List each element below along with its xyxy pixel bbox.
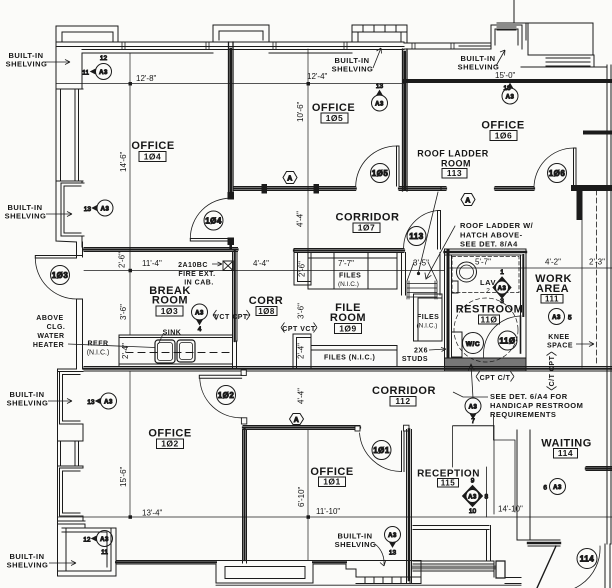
reception counter L: [413, 526, 491, 561]
annotation BUILT-IN SHELVING top-right: [458, 50, 505, 72]
annotation LAV: [480, 278, 496, 295]
wall west of break room w/ door 103 opening: [77, 242, 83, 369]
wall corridor112 north: [84, 367, 612, 372]
svg-text:1Ø8: 1Ø8: [258, 307, 275, 316]
svg-text:11Ø: 11Ø: [499, 337, 515, 346]
svg-text:SHELVING: SHELVING: [332, 65, 374, 74]
A3 balloon bottom shelving (triangle bottom): [385, 527, 401, 557]
door 104 arc: [190, 198, 230, 238]
svg-text:2: 2: [486, 288, 490, 295]
A3 balloon office105 (triangle top): [372, 83, 388, 111]
wall right exterior: [594, 65, 611, 544]
door 113 leaf: [438, 211, 441, 250]
dimension line middle: [84, 268, 612, 271]
door circle 104: [204, 211, 223, 230]
svg-text:A: A: [287, 176, 293, 183]
svg-text:4'-4": 4'-4": [296, 211, 305, 227]
room label WORK AREA 111: [535, 273, 572, 304]
wall restroom west (2x6 studs): [445, 249, 452, 366]
svg-text:4'-4": 4'-4": [253, 259, 269, 268]
svg-text:1Ø3: 1Ø3: [52, 271, 69, 280]
svg-text:A3: A3: [195, 311, 204, 317]
svg-text:A3: A3: [469, 405, 478, 411]
svg-text:7'-7": 7'-7": [338, 259, 354, 268]
svg-text:REQUIREMENTS: REQUIREMENTS: [490, 410, 556, 419]
wall stub east of office106: [585, 131, 612, 135]
A3 balloon break room (triangle bottom): [192, 304, 208, 333]
svg-text:2'-4": 2'-4": [121, 343, 130, 359]
wall left exterior outer: [56, 26, 77, 242]
wall dark segment SE of office106: [574, 185, 612, 191]
svg-text:1Ø5: 1Ø5: [326, 113, 344, 123]
svg-text:WATER: WATER: [37, 333, 64, 340]
svg-text:4'-4": 4'-4": [297, 388, 306, 404]
annotation BUILT-IN SHELVING left lower: [7, 390, 72, 408]
svg-text:HATCH ABOVE-: HATCH ABOVE-: [460, 231, 523, 240]
svg-text:CPT C/T: CPT C/T: [480, 375, 511, 382]
room label ROOF LADDER ROOM 113: [417, 149, 489, 179]
svg-text:A: A: [465, 198, 471, 205]
door 104 jamb blocks: [228, 193, 234, 200]
roof ladder rails and rungs: [407, 262, 437, 299]
svg-text:6: 6: [543, 485, 547, 492]
restroom south wall hatched: [445, 358, 527, 371]
door 114 wall: [528, 540, 560, 546]
shelving bump B4: [491, 25, 522, 49]
WC circle: [463, 333, 484, 354]
svg-text:ROOM: ROOM: [152, 295, 188, 307]
flooring CPT C/T: [476, 372, 514, 383]
svg-text:12: 12: [100, 55, 108, 62]
dimension line top: [56, 83, 404, 85]
room label OFFICE 105: [312, 102, 355, 123]
shelving recess left2: [60, 372, 84, 442]
svg-text:A3: A3: [388, 533, 397, 539]
wall reception|waiting divider: [517, 430, 530, 540]
A3 balloon office102 left (triangle left): [87, 393, 116, 409]
svg-text:A3: A3: [552, 315, 561, 321]
svg-text:1Ø9: 1Ø9: [339, 324, 357, 334]
window ticks top wall: [122, 42, 454, 49]
svg-text:4'-2": 4'-2": [545, 258, 561, 267]
room label RESTROOM 110: [456, 304, 524, 325]
svg-text:AREA: AREA: [536, 283, 569, 295]
svg-text:13'-4": 13'-4": [142, 509, 163, 518]
svg-text:2'-4": 2'-4": [297, 343, 306, 359]
svg-text:1Ø1: 1Ø1: [323, 477, 341, 487]
svg-text:5'-7": 5'-7": [475, 258, 491, 267]
built-in shelving L bottom-left: [58, 528, 117, 576]
door circle 106: [548, 164, 567, 183]
room label OFFICE 104: [131, 140, 174, 162]
WC tank: [452, 332, 463, 357]
svg-text:SHELVING: SHELVING: [7, 399, 49, 408]
work area west boundary thin: [581, 217, 583, 367]
room label CORRIDOR 107: [336, 212, 400, 233]
annotation BUILT-IN SHELVING bottom-center: [335, 532, 386, 567]
svg-text:OFFICE: OFFICE: [131, 140, 174, 152]
room label CORR 108: [249, 295, 283, 316]
svg-text:ROOF LADDER: ROOF LADDER: [417, 149, 489, 159]
WC leader arrow: [469, 364, 475, 398]
svg-text:10'-6": 10'-6": [296, 101, 305, 122]
annotation BUILT-IN SHELVING top-center: [332, 48, 382, 74]
door 102 leaf: [199, 375, 241, 378]
svg-text:11Ø: 11Ø: [480, 315, 497, 325]
svg-text:12'-8": 12'-8": [136, 74, 157, 83]
door 101 arc: [360, 433, 402, 472]
wall corridor107 north segment B: [399, 187, 446, 191]
bottom bump A: [216, 561, 313, 584]
door 114 leaf: [537, 546, 556, 588]
wall divider office102|101: [243, 430, 247, 564]
door 105 arc: [356, 146, 397, 187]
svg-text:11'-10": 11'-10": [316, 507, 340, 516]
shelving recess left3: [60, 466, 84, 521]
leader polyline to door114 area: [494, 415, 516, 512]
door 110 arc: [484, 316, 521, 360]
restroom vanity dashed: [452, 257, 519, 293]
A3 balloon waiting: [543, 479, 565, 495]
svg-text:SPACE: SPACE: [547, 343, 573, 350]
reception desk lines: [453, 426, 495, 517]
svg-text:SEE DET. 8/A4: SEE DET. 8/A4: [460, 240, 518, 249]
svg-text:1Ø7: 1Ø7: [358, 223, 376, 233]
svg-text:SHELVING: SHELVING: [7, 561, 49, 570]
corr108 east cabinet bottom: [293, 334, 311, 368]
wall waiting north-east stub: [586, 467, 612, 471]
dim extension line x130: [129, 53, 131, 516]
door circle 105: [371, 164, 390, 183]
door 110 leaf: [520, 316, 522, 353]
svg-text:FIRE EXT.: FIRE EXT.: [178, 271, 215, 278]
room label OFFICE 102: [148, 428, 191, 449]
A3 balloon restroom diamond: [493, 269, 511, 305]
svg-text:SHELVING: SHELVING: [335, 540, 377, 549]
room label WAITING 114: [541, 438, 592, 459]
svg-text:12: 12: [83, 537, 91, 544]
svg-text:14'-10": 14'-10": [498, 505, 523, 514]
svg-text:CPT VCT: CPT VCT: [282, 326, 316, 333]
bottom bump B: [346, 561, 421, 584]
svg-text:8: 8: [485, 494, 489, 501]
wall north of office106/work area (thick): [404, 79, 612, 83]
annotation REFR NIC: [87, 341, 110, 357]
files text right cabinet: [417, 314, 440, 330]
file room bottom cabinet: [311, 346, 397, 367]
wall file room north (corr107 south east part): [294, 249, 404, 253]
svg-text:1Ø4: 1Ø4: [205, 217, 222, 226]
A3 balloon work area: [549, 309, 573, 325]
svg-text:A3: A3: [506, 95, 515, 101]
wall corr108 west / fire cabinet wall: [233, 252, 238, 342]
dim extension line x308: [307, 49, 309, 560]
annotation ROOF LADDER W HATCH: [460, 221, 534, 249]
svg-text:6'-10": 6'-10": [297, 486, 306, 507]
svg-text:A3: A3: [101, 207, 110, 213]
annotation KNEE SPACE: [547, 334, 594, 350]
door 106 arc: [534, 148, 574, 189]
wall restroom east: [521, 249, 527, 362]
svg-text:CORR: CORR: [249, 295, 283, 307]
bottom column: [496, 561, 505, 578]
svg-text:13: 13: [389, 550, 397, 557]
door circle 114: [577, 549, 597, 569]
svg-text:11: 11: [82, 70, 89, 77]
svg-text:FILES: FILES: [417, 314, 439, 321]
svg-text:13: 13: [87, 399, 95, 406]
svg-text:114: 114: [558, 448, 573, 458]
door 102 arc: [200, 379, 242, 418]
door 106 leaf: [574, 148, 577, 188]
annotation 2X6 STUDS: [402, 348, 446, 364]
wall corridor107 north segment A: [234, 187, 356, 191]
svg-text:A3: A3: [100, 537, 109, 543]
restroom turning circle dashed: [454, 298, 518, 362]
annotation BUILT-IN SHELVING top-left: [6, 51, 70, 69]
shelving bump B1 top-left: [56, 26, 118, 42]
svg-text:11'-4": 11'-4": [142, 259, 162, 268]
wall reception west: [407, 430, 412, 584]
knee space dashed line: [596, 190, 598, 363]
svg-text:A3: A3: [498, 286, 507, 292]
room label OFFICE 101: [310, 466, 353, 487]
door circle 113: [407, 227, 426, 246]
corr108 east cabinet top: [294, 249, 311, 286]
svg-text:1Ø1: 1Ø1: [373, 446, 390, 455]
svg-text:IN CAB.: IN CAB.: [184, 280, 214, 287]
hexagon A corridor107: [283, 172, 297, 184]
room label FILE ROOM 109: [330, 302, 366, 334]
wall restroom north: [445, 249, 527, 255]
svg-text:A3: A3: [375, 102, 384, 108]
svg-text:15'-0": 15'-0": [495, 71, 516, 80]
svg-text:2'-6": 2'-6": [118, 252, 127, 268]
dimension line bottom: [58, 516, 612, 518]
bottom hatched band right of reception wall: [413, 561, 494, 577]
svg-text:SHELVING: SHELVING: [458, 63, 500, 72]
svg-text:(N.I.C.): (N.I.C.): [87, 350, 110, 357]
door 113 arc: [404, 211, 438, 248]
svg-text:3'-6": 3'-6": [297, 303, 306, 319]
svg-text:VCT CPT: VCT CPT: [214, 314, 248, 321]
svg-text:11: 11: [101, 549, 108, 556]
svg-text:2'-6": 2'-6": [298, 261, 307, 277]
svg-text:KNEE: KNEE: [548, 334, 569, 341]
wall bottom right: [605, 544, 610, 588]
flooring VCT CPT: [213, 310, 250, 321]
annotation SINK: [159, 330, 182, 345]
annotation BUILT-IN SHELVING left mid: [5, 203, 72, 221]
svg-text:113: 113: [409, 232, 423, 241]
svg-text:14'-6": 14'-6": [119, 151, 128, 172]
svg-text:13: 13: [376, 83, 384, 90]
wall top exterior band: [56, 42, 404, 50]
shelving recess left1: [61, 183, 84, 247]
RLR leader diagonals: [419, 192, 456, 279]
door101 jamb blocks: [355, 426, 360, 431]
wall divider office104|105: [229, 42, 234, 193]
dim intersection ticks: [129, 82, 311, 519]
wall corridor112 south: [243, 426, 494, 430]
door 101 leaf: [402, 431, 405, 472]
shelving bump B3: [352, 25, 407, 42]
A3 balloon below restroom (triangle bottom): [465, 398, 481, 425]
wall top inner face: [82, 52, 352, 54]
svg-text:A3: A3: [468, 495, 477, 501]
wall bottom-left corner: [58, 521, 86, 528]
break room counter: [119, 335, 237, 368]
shelving bump B2: [213, 25, 269, 42]
bottom outer line under bumps: [216, 584, 521, 586]
svg-text:13: 13: [84, 206, 92, 213]
door circle 110: [498, 331, 517, 350]
svg-text:SINK: SINK: [163, 330, 182, 337]
A3 balloon office106 (triangle top): [502, 84, 518, 104]
svg-text:5: 5: [568, 315, 572, 322]
door 114 arc: [537, 546, 600, 588]
svg-text:1Ø2: 1Ø2: [218, 391, 235, 400]
hexagon A near restroom top: [461, 194, 475, 206]
room label RECEPTION 113: [417, 469, 480, 488]
bottom band to waiting divider: [505, 578, 521, 584]
svg-text:1: 1: [500, 269, 504, 276]
svg-text:ABOVE: ABOVE: [36, 315, 63, 322]
flooring CPT VCT: [281, 323, 317, 334]
wall break room north (corr107 south): [84, 248, 238, 252]
room label BREAK ROOM 103: [149, 285, 191, 316]
wall top right section: [404, 43, 491, 49]
annotation 2A10BC FIRE EXT IN CAB: [178, 262, 222, 287]
A3 balloon office104 left (triangle left): [84, 200, 113, 216]
fire extinguisher cabinet: [223, 261, 233, 271]
svg-text:114: 114: [580, 555, 594, 564]
restroom sink: [457, 262, 477, 282]
flooring C/T CPT vertical: [547, 352, 557, 390]
svg-text:LAV: LAV: [480, 278, 496, 287]
svg-text:15'-6": 15'-6": [119, 466, 128, 487]
svg-text:SHELVING: SHELVING: [6, 60, 48, 69]
svg-text:STUDS: STUDS: [402, 356, 428, 363]
svg-text:A3: A3: [99, 70, 108, 76]
svg-text:FILES (N.I.C.): FILES (N.I.C.): [324, 355, 375, 362]
svg-text:10: 10: [469, 508, 477, 515]
wall left lower outer: [57, 369, 59, 576]
svg-text:(N.I.C.): (N.I.C.): [338, 281, 359, 288]
svg-text:ROOM: ROOM: [330, 312, 366, 324]
svg-text:SEE DET. 6/A4 FOR: SEE DET. 6/A4 FOR: [490, 392, 568, 401]
A3 balloon top-left (triangle left): [82, 55, 111, 80]
wall corridor107 north segment C: [495, 187, 534, 191]
door 104 leaf: [190, 239, 230, 242]
svg-text:SHELVING: SHELVING: [5, 212, 47, 221]
window left lower: [58, 441, 84, 466]
svg-text:(N.I.C.): (N.I.C.): [417, 323, 438, 330]
door circle 103: [51, 266, 70, 285]
door 105 leaf: [397, 146, 400, 186]
svg-text:A3: A3: [104, 400, 113, 406]
file room top cabinet: [308, 254, 397, 290]
svg-text:W/C: W/C: [466, 341, 480, 348]
svg-text:HEATER: HEATER: [33, 342, 64, 349]
wall divider office105|RLR: [403, 49, 408, 191]
door circle 102: [217, 386, 236, 405]
svg-text:3'-5": 3'-5": [413, 259, 429, 268]
hexagon A corridor112: [290, 414, 304, 425]
door 103 leaf: [35, 256, 76, 259]
A3 balloon bottom-left (triangle left): [83, 531, 112, 557]
file room right cabinet: [414, 294, 443, 341]
door 102 jamb blocks: [241, 370, 246, 376]
svg-text:1Ø5: 1Ø5: [372, 169, 389, 178]
svg-text:FILES: FILES: [339, 273, 361, 280]
wall bottom segments: [116, 561, 346, 565]
svg-text:1Ø6: 1Ø6: [549, 169, 566, 178]
svg-text:CLG.: CLG.: [47, 324, 66, 331]
sink basins: [155, 340, 175, 363]
svg-text:HANDICAP RESTROOM: HANDICAP RESTROOM: [490, 401, 583, 410]
svg-text:REFR: REFR: [87, 341, 108, 348]
svg-text:112: 112: [395, 396, 410, 406]
svg-text:113: 113: [447, 168, 462, 178]
annotation SEE DET 6/A4: [453, 392, 583, 419]
svg-text:7: 7: [471, 418, 475, 425]
svg-text:4: 4: [198, 326, 202, 333]
svg-text:1Ø3: 1Ø3: [161, 306, 179, 316]
svg-text:2X6: 2X6: [414, 348, 428, 355]
wall connector lower-left: [58, 369, 77, 372]
top-right bump assembly: [497, 0, 528, 40]
svg-text:13: 13: [503, 85, 511, 92]
room label CORRIDOR 112: [372, 385, 436, 406]
svg-text:1Ø4: 1Ø4: [144, 152, 162, 162]
svg-text:A3: A3: [553, 485, 562, 491]
svg-text:C/T CPT: C/T CPT: [549, 355, 556, 386]
roof ladder alcove walls: [402, 253, 441, 296]
A3 balloon reception diamond: [463, 478, 489, 516]
svg-text:ROOM: ROOM: [441, 159, 471, 169]
files text top cabinet: [338, 273, 361, 289]
svg-text:ROOF LADDER W/: ROOF LADDER W/: [460, 221, 534, 230]
svg-text:3'-6": 3'-6": [119, 304, 128, 320]
svg-text:12'-4": 12'-4": [307, 72, 328, 81]
annotation BUILT-IN SHELVING bottom-left: [7, 552, 76, 570]
svg-text:111: 111: [545, 295, 559, 304]
annotation ABOVE CLG WATER HEATER: [33, 315, 155, 349]
svg-text:2A10BC: 2A10BC: [178, 262, 208, 269]
svg-text:1Ø2: 1Ø2: [161, 439, 179, 449]
door 103 arc: [35, 258, 76, 299]
door circle 101: [372, 441, 391, 460]
svg-text:2'-3": 2'-3": [589, 258, 605, 267]
svg-text:1Ø6: 1Ø6: [495, 131, 513, 141]
svg-text:115: 115: [441, 479, 455, 488]
room label OFFICE 106: [481, 120, 524, 141]
svg-text:A: A: [294, 417, 300, 424]
wall left inner upper: [57, 53, 83, 183]
